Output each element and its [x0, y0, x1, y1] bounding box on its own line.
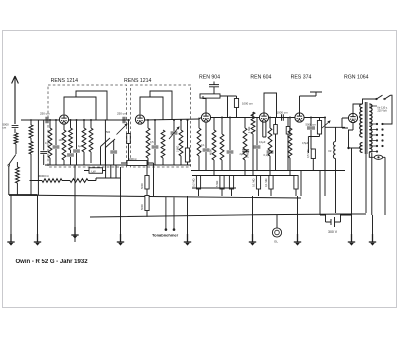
wire st2 e [187, 120, 189, 165]
capacitor 250cm stage2 [123, 117, 125, 123]
wire st1 f [83, 120, 85, 165]
wire st3 c [213, 118, 215, 176]
label 5000 v1 [140, 183, 144, 189]
label 30000 [38, 174, 49, 178]
resistor wave 2 [70, 179, 88, 183]
transformer primary lower [360, 143, 363, 153]
wire st1 h [128, 120, 130, 165]
rbox st2 e [185, 148, 189, 162]
svg-text:5 MΩ: 5 MΩ [215, 181, 219, 187]
wire wave2 lead [88, 178, 96, 181]
tube V1 RENS1214 [59, 115, 68, 124]
wire mid vert x325 [324, 127, 326, 196]
caption Owin R52G 1932 [16, 259, 89, 265]
junction dots bus right [221, 117, 326, 119]
wire bus left [21, 119, 60, 121]
tube V4 REN604 [259, 113, 268, 122]
label 5000cm out [306, 123, 317, 127]
wire V2 screen loop [150, 91, 172, 120]
wire bus after V5 [304, 117, 325, 119]
label 5000 cm antenna [3, 123, 10, 130]
rbox st1 h [127, 134, 131, 144]
wire choke [335, 127, 337, 213]
capacitor colD [40, 151, 47, 153]
svg-text:0,1: 0,1 [201, 144, 205, 147]
capacitor st1 low [110, 151, 117, 153]
svg-text:0,1 MΩ: 0,1 MΩ [264, 179, 268, 187]
svg-text:2µF: 2µF [240, 153, 245, 156]
svg-text:1000 cm: 1000 cm [242, 102, 253, 106]
wire rbox drops 2 [259, 189, 272, 196]
mains switch [376, 95, 391, 100]
rail y165 left [45, 164, 191, 166]
svg-text:5000: 5000 [140, 183, 144, 189]
choke Dr [333, 142, 335, 159]
lamp GL [272, 228, 281, 237]
resistor st1 c [62, 130, 66, 160]
label LW [92, 169, 96, 173]
resistor st2 c [161, 130, 165, 158]
switch wellenschalter [8, 155, 16, 167]
svg-text:300 V: 300 V [328, 230, 338, 234]
svg-text:500: 500 [106, 131, 111, 134]
rail y175 boxes [192, 175, 296, 177]
label 0,1 st3 [201, 144, 205, 147]
svg-text:Tonabnehmer: Tonabnehmer [152, 232, 179, 237]
wire drop x320 [319, 171, 321, 216]
label 100 st1 [59, 139, 64, 142]
label RENS 1214 second [124, 78, 152, 84]
wire ground stem left [10, 195, 12, 242]
wire 5000h leads [121, 163, 154, 196]
resistor st2 d [179, 130, 183, 156]
label 01uF b [264, 154, 271, 157]
capacitor 250cm stage1 [46, 117, 48, 123]
resistor st1 g [89, 128, 93, 152]
switch st1 double [101, 138, 116, 148]
capacitor 2uF [242, 150, 249, 152]
resistor st1 d [69, 128, 73, 150]
wire st1 a [49, 120, 51, 165]
wire lamp stem [276, 215, 278, 228]
junction col B [30, 119, 32, 121]
wire st1 e [76, 120, 78, 165]
tap dots [376, 123, 378, 153]
wire V6 down [351, 148, 353, 212]
rbox V4 bias2 [286, 127, 290, 135]
wire V5 grid stub [300, 96, 317, 113]
resistor st3 a [197, 128, 201, 156]
wire V2 plate loop [140, 97, 163, 120]
wire bus A [49, 119, 60, 121]
rbox 1 Mohm [229, 176, 233, 190]
wire grid leak [252, 112, 254, 176]
variable capacitor st2 [169, 127, 179, 139]
svg-text:4000: 4000 [209, 149, 213, 155]
wire st1 g [90, 120, 92, 163]
label cm var1 [106, 131, 111, 134]
svg-text:5000 Ω: 5000 Ω [128, 157, 136, 161]
tube V5 RES374 [295, 113, 304, 122]
thick rail y195 left [9, 194, 38, 196]
rbox st5 grid [294, 176, 298, 190]
rail y211 [90, 214, 352, 217]
ground x352 [348, 234, 355, 246]
wire 30000 leads [30, 180, 71, 182]
tube V2 RENS1214 [135, 115, 144, 124]
terminal dots col2 [381, 123, 383, 147]
resistor st3 c [212, 130, 216, 160]
junction dots bus left [49, 119, 189, 121]
rbox 5000 horizontal [127, 161, 147, 166]
svg-text:30000 Ω: 30000 Ω [38, 174, 49, 178]
wire 5000 chain [146, 166, 148, 217]
rbox coupling 2000cm [234, 99, 238, 108]
wire colB down [30, 154, 32, 195]
wire st4 b [256, 118, 258, 171]
wire V6 top [353, 104, 363, 113]
wire st1 d [70, 120, 72, 165]
svg-text:5 MΩ: 5 MΩ [246, 152, 250, 158]
ground x297 [294, 234, 301, 246]
svg-text:250 cm: 250 cm [117, 112, 127, 116]
capacitor st1 e 1uF [73, 150, 80, 152]
resistor st3 d [220, 134, 224, 160]
resistor 30000 [42, 179, 62, 183]
svg-text:0,1: 0,1 [45, 142, 49, 145]
vlabel 1 Mohm [247, 127, 251, 133]
wire st5 a [289, 118, 291, 176]
wire V4 cathode pair [263, 121, 266, 137]
wire coupling box [228, 96, 237, 118]
svg-text:220 Volt: 220 Volt [378, 110, 387, 113]
vlabel 5 Mohm [215, 181, 219, 187]
wire pot [325, 118, 345, 128]
capacitor top V3 [209, 82, 219, 95]
label 250cm stage1 [40, 112, 50, 116]
fuse [374, 155, 382, 159]
wire V6 left [342, 118, 348, 128]
rail y170 right [191, 170, 345, 172]
wire 5000 st5 [308, 118, 319, 154]
wire 05M drop [311, 149, 313, 171]
svg-text:0,2 MΩ: 0,2 MΩ [192, 179, 196, 187]
anode resistor box V3 [200, 94, 220, 98]
ground antenna [7, 234, 14, 246]
svg-text:0,1µF: 0,1µF [264, 154, 271, 157]
wire colC ground [37, 195, 39, 242]
wire V4 plate loop [264, 93, 277, 118]
wire antenna mid2 [15, 144, 17, 154]
wire st5 grid drop [295, 189, 297, 196]
wire V4 bias2 [287, 118, 289, 171]
rbox 5 Mohm [220, 176, 224, 190]
rail y178 LW [96, 177, 121, 179]
svg-text:RENS 1214: RENS 1214 [124, 78, 152, 84]
rbox 0,1M b [269, 176, 273, 190]
tube V6 RGN1064 [348, 113, 357, 122]
label RGN 1064 [344, 75, 369, 81]
label 01uF st4 [259, 141, 266, 144]
label 0,1 uF st1 [45, 142, 49, 145]
vlabel 05M [306, 150, 310, 158]
wire colC vertical [37, 120, 39, 195]
svg-text:1 MΩ: 1 MΩ [247, 127, 251, 133]
label 2 Mohm st2 [176, 146, 180, 152]
svg-text:0,5: 0,5 [150, 141, 154, 144]
transformer core [365, 102, 367, 154]
label 5000 h [128, 157, 136, 161]
vlabel 0,2 Mohm [192, 179, 196, 187]
wire battery right [341, 212, 352, 219]
capacitor series V4V5 [282, 114, 284, 120]
resistor st2 a [146, 128, 150, 158]
svg-text:RES 374: RES 374 [291, 75, 312, 81]
label 2uF [240, 153, 245, 156]
wire bus after V2 [145, 118, 202, 121]
wire drop x301 [300, 171, 302, 197]
ground x187 [184, 234, 191, 246]
vlabel 01M b [264, 179, 268, 187]
wire V3 box join [203, 96, 206, 99]
svg-text:RENS 1214: RENS 1214 [51, 78, 79, 84]
wire V3 plate up [205, 99, 207, 113]
label 5MOhm right [246, 152, 250, 158]
wire antenna mid [14, 129, 16, 134]
ground x252 [249, 234, 256, 246]
shield box 1 dashed [48, 85, 127, 167]
wire bus after V4 [269, 117, 295, 119]
svg-text:0,1µF: 0,1µF [259, 141, 266, 144]
svg-text:1000 cm: 1000 cm [277, 111, 289, 115]
resistor colB upper [29, 125, 33, 138]
resistor st4 c [268, 128, 272, 156]
wire st4 a [244, 118, 246, 176]
label RES 374 [291, 75, 312, 81]
wire st1 cap low [113, 140, 115, 165]
capacitor 01uF b [267, 151, 274, 153]
wire res lower joins [16, 162, 18, 195]
svg-text:Dr: Dr [329, 149, 332, 153]
svg-text:GL: GL [274, 240, 278, 244]
tonabnehmer terminals [165, 197, 176, 231]
capacitor st1 b [53, 146, 60, 148]
label Tonabnehmer [152, 232, 179, 237]
svg-text:5000: 5000 [140, 204, 144, 210]
wire st2 a [147, 120, 149, 165]
wire fuse leads [369, 152, 385, 170]
capacitor st2 b [152, 146, 159, 148]
svg-text:Owin - R 52 G - Jahr 1932: Owin - R 52 G - Jahr 1932 [16, 259, 89, 265]
svg-text:2 MΩ: 2 MΩ [176, 146, 180, 152]
label REN 904 [199, 75, 220, 81]
wire drop x372 [372, 215, 374, 242]
rbox 5000 st5 [317, 121, 321, 135]
label GL [274, 240, 278, 244]
wire colB stub [30, 120, 32, 142]
rbox 0,5M out [311, 149, 315, 159]
wire st1 sw verts [101, 147, 106, 166]
svg-text:250 cm: 250 cm [40, 112, 50, 116]
rbox V4 bias [274, 125, 278, 135]
wire st1 x105 [104, 120, 106, 165]
transformer secondary [369, 104, 372, 152]
capacitor st3 e [227, 151, 234, 153]
capacitor st3 b [203, 149, 210, 151]
label mains voltages [378, 107, 389, 113]
label 300V [328, 230, 338, 234]
wire bus after V1 [69, 119, 130, 121]
wire secondary bottom drop [366, 153, 385, 216]
resistor grid leak V4 [251, 112, 255, 134]
wire st3 a [198, 118, 200, 171]
ground tuner [34, 234, 41, 246]
shield box 2 dashed [131, 85, 191, 167]
wire st2 c [162, 158, 164, 165]
junction st1 x105 [105, 119, 107, 121]
wire LW verticals [106, 165, 116, 178]
svg-text:RGN 1064: RGN 1064 [344, 75, 369, 81]
label 1uF [78, 144, 83, 148]
capacitor st4 b [254, 146, 261, 148]
wire bus after V3 [211, 117, 260, 119]
vlabel 01M a [252, 179, 256, 187]
wire drop x297 [297, 196, 299, 242]
antenna [12, 76, 19, 124]
wire st2 b [154, 120, 156, 165]
rail y196 [11, 195, 301, 198]
capacitor top V5 [310, 92, 322, 96]
wire LW leads [84, 170, 106, 172]
wire st3 e [229, 118, 231, 171]
rbox 0,1M a [256, 176, 260, 190]
capacitor antenna 5000cm [12, 126, 19, 128]
label REN 604 [250, 75, 271, 81]
wire drop x120 [120, 167, 122, 242]
resistor st4 a [243, 128, 247, 160]
wire V1 plate loop [64, 97, 96, 120]
label 0,5 st2 [150, 141, 154, 144]
label 2000 cm [242, 102, 253, 106]
wire drop x352 [351, 214, 353, 242]
wire battery left [320, 215, 326, 219]
wire 5000cm [310, 118, 312, 150]
potentiometer arrow [322, 121, 330, 128]
label 250cm stage2 [117, 112, 127, 116]
wire st3 b [205, 122, 207, 170]
svg-text:0,1 MΩ: 0,1 MΩ [252, 179, 256, 187]
label RENS 1214 first [51, 78, 79, 84]
label Dr [329, 149, 332, 153]
rbox 5000 v1 [145, 176, 149, 190]
wire V3 plate right [220, 96, 228, 118]
rail y215 right [320, 214, 325, 216]
svg-text:100: 100 [59, 139, 64, 142]
wire V4 bias [275, 118, 277, 171]
resistor antenna lower [16, 167, 20, 183]
label 1000cm V4 [277, 111, 289, 115]
wire st3 d [221, 118, 223, 171]
wire drop x252 [252, 196, 254, 242]
capacitor st1 d2 [67, 154, 74, 156]
ground x75 [71, 227, 78, 239]
label 4000 st3 [209, 149, 213, 155]
capacitor 5000cm out [307, 127, 315, 129]
variable arrow st1 [117, 124, 128, 135]
label 0,5uF st5 [302, 142, 309, 145]
resistor st1 a [48, 128, 52, 158]
wire V6 bottom [349, 123, 361, 148]
battery 300V [326, 217, 341, 227]
transformer taps [369, 106, 377, 152]
tube V3 REN904 [201, 113, 210, 122]
wire drop x75 [74, 165, 76, 242]
svg-text:0,5µF: 0,5µF [302, 142, 309, 145]
wire mains right drop [383, 95, 393, 124]
resistor st1 f [82, 128, 86, 152]
wire transformer top switch [363, 99, 377, 104]
wire switch down [8, 166, 10, 195]
rbox 0,2 Mohm [196, 176, 200, 190]
svg-text:REN 604: REN 604 [250, 75, 271, 81]
wire drop x187 [187, 196, 189, 242]
coil LW box [89, 168, 103, 174]
wire st2 d [180, 120, 182, 165]
wire st1 c [63, 124, 65, 165]
wire V1 screen loop [76, 91, 107, 120]
junction V6 [347, 147, 349, 149]
rail y213 [336, 213, 367, 215]
svg-text:REN 904: REN 904 [199, 75, 220, 81]
wire rbox drops [199, 189, 232, 196]
rail y188 [192, 187, 236, 189]
rbox 5000 v2 [145, 196, 149, 211]
resistor colB lower [29, 142, 33, 155]
ground x372 [369, 234, 376, 246]
wire st4 c [269, 118, 271, 176]
resistor st5 a [288, 128, 292, 158]
wire st1 b [55, 120, 57, 165]
svg-text:LW: LW [92, 169, 96, 173]
wire st2 var [173, 120, 175, 165]
wire colD [43, 120, 45, 165]
transformer primary upper [360, 104, 363, 137]
resistor antenna upper [14, 133, 18, 144]
ground x120 [117, 234, 124, 246]
label 5000 v2 [140, 204, 144, 210]
